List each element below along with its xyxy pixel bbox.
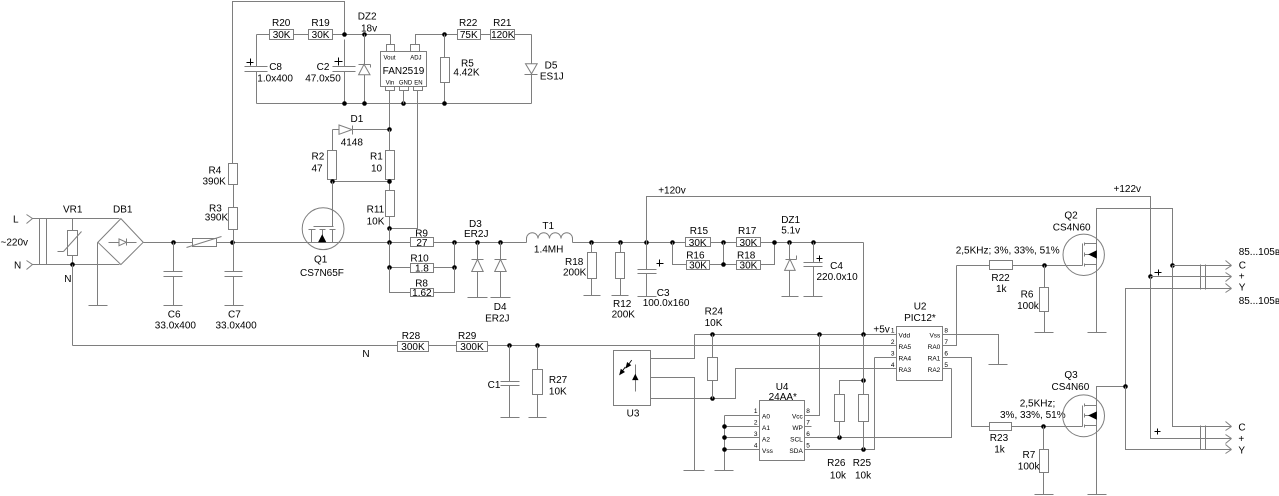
port L input <box>27 215 33 224</box>
svg-text:C2: C2 <box>317 62 330 73</box>
ground R18 bar <box>584 295 601 297</box>
svg-text:+5v: +5v <box>873 325 889 336</box>
svg-text:4: 4 <box>891 362 895 369</box>
wire U2 RA0 riser to R22 <box>943 266 957 346</box>
node junction SCL / R26 <box>837 435 842 440</box>
diode D3 <box>472 243 484 298</box>
transistor Q1 taps <box>312 230 333 243</box>
svg-text:Vss: Vss <box>929 332 941 339</box>
node junction + output upper <box>1148 274 1153 279</box>
wire U4 left pins common <box>725 416 760 471</box>
fusible resistor on main line <box>187 237 222 248</box>
resistor R25 value <box>855 471 872 482</box>
zener diode DZ1 label <box>781 215 800 226</box>
transistor Q3 channel ticks <box>1084 404 1086 428</box>
resistor R12 label <box>613 299 632 310</box>
svg-text:Q1: Q1 <box>314 255 328 266</box>
resistor R12 <box>616 243 625 296</box>
diode D3 label <box>469 219 482 230</box>
inductor T1 label <box>542 221 554 232</box>
svg-text:C1: C1 <box>488 380 501 391</box>
node label C lower <box>1238 423 1245 434</box>
resistor R5 value <box>453 68 479 79</box>
resistor R4 label <box>209 166 222 177</box>
resistor R7 value <box>1018 462 1041 473</box>
svg-text:30K: 30K <box>740 260 758 271</box>
svg-text:D5: D5 <box>545 61 558 72</box>
ground U3 bar <box>684 470 705 472</box>
svg-text:R26: R26 <box>827 458 846 469</box>
svg-text:RA2: RA2 <box>928 367 941 374</box>
wire +5v rail <box>695 334 897 336</box>
wire + line upper <box>1151 276 1232 278</box>
svg-text:33.0x400: 33.0x400 <box>155 321 197 332</box>
capacitor C2 <box>333 40 356 104</box>
wire FAN2519 Vout riser <box>390 35 392 45</box>
resistor R4 <box>229 164 238 208</box>
node label N below junction <box>64 274 71 285</box>
ic U2 pin labels right <box>928 332 941 374</box>
ground DZ1 bar <box>782 296 799 298</box>
svg-text:ES1J: ES1J <box>540 72 564 83</box>
resistor R15 <box>686 238 711 249</box>
resistor R15 label <box>690 226 709 237</box>
svg-text:10K: 10K <box>367 217 385 228</box>
ic U2 box <box>897 327 943 381</box>
wire FAN2519 EN down to R11 node <box>390 91 418 229</box>
resistor R19 <box>309 30 333 42</box>
wire N to DB1 bottom <box>33 264 120 266</box>
wire U2 RA2 to SCL <box>943 368 952 370</box>
resistor R27 <box>533 346 543 418</box>
transistor Q3 taps <box>1085 406 1097 426</box>
svg-text:SDA: SDA <box>789 448 803 455</box>
svg-text:200K: 200K <box>612 310 636 321</box>
node junction Q3 gate / R7 <box>1041 424 1046 429</box>
port Y lower arrow <box>1226 445 1232 454</box>
svg-text:DZ2: DZ2 <box>358 12 377 23</box>
ic U4 box <box>760 401 805 461</box>
node junction +5v feed / R25 column <box>861 332 866 337</box>
ic U2 pin labels left <box>899 332 912 374</box>
resistor R18 <box>588 243 597 296</box>
node junction main/R9 left <box>387 240 392 245</box>
node junction SDA / R25 <box>861 447 866 452</box>
svg-text:R4: R4 <box>209 166 222 177</box>
node junction FAN2519 GND <box>401 101 406 106</box>
svg-text:4.42K: 4.42K <box>453 68 479 79</box>
transistor Q2 part number <box>1053 223 1091 234</box>
wire Y line lower <box>1126 387 1232 450</box>
resistor R6 label <box>1021 290 1034 301</box>
svg-text:2,5KHz; 3%, 33%, 51%: 2,5KHz; 3%, 33%, 51% <box>956 246 1060 257</box>
ground U2 Vss bar <box>989 364 1008 366</box>
node junction R26/R25 top <box>861 378 866 383</box>
resistor R9 label <box>415 229 428 240</box>
capacitor C6 value <box>155 321 197 332</box>
transistor Q3 part number <box>1052 382 1090 393</box>
wire main to +5v feed <box>863 243 865 335</box>
wire U2 Vss to bar <box>943 335 999 365</box>
capacitor C4 <box>804 243 823 297</box>
resistor R10 label <box>410 254 429 265</box>
svg-text:R2: R2 <box>312 152 325 163</box>
resistor R18 value <box>563 268 587 279</box>
ic U2 label <box>914 302 927 313</box>
svg-text:Y: Y <box>1238 446 1245 457</box>
resistor R9 <box>411 238 434 249</box>
svg-text:R27: R27 <box>549 375 568 386</box>
wire Q1 gate riser <box>332 182 334 227</box>
svg-text:U3: U3 <box>627 409 640 420</box>
svg-text:3%, 33%, 51%: 3%, 33%, 51% <box>1000 410 1066 421</box>
bridge rectifier DB1 <box>98 219 143 265</box>
transistor Q1 gate bar <box>314 226 334 228</box>
capacitor C8 label <box>269 62 282 73</box>
node junction U4 pin4 <box>722 447 727 452</box>
svg-text:L: L <box>13 215 19 226</box>
capacitor C2 label <box>317 62 330 73</box>
svg-text:C: C <box>1239 261 1246 272</box>
svg-text:10K: 10K <box>549 387 567 398</box>
svg-text:1.4MH: 1.4MH <box>534 245 563 256</box>
svg-text:+122v: +122v <box>1114 184 1142 195</box>
diode D5 value <box>540 72 564 83</box>
resistor R26 label <box>827 458 846 469</box>
node label Y lower <box>1238 446 1245 457</box>
node junction Q3 drain / Y <box>1123 384 1128 389</box>
node label +122v <box>1114 184 1142 195</box>
svg-text:7: 7 <box>944 339 948 346</box>
svg-text:R22: R22 <box>459 18 478 29</box>
resistor R28 <box>398 342 429 354</box>
node junction C1 <box>507 343 512 348</box>
connector bars upper <box>1201 265 1206 290</box>
ic U4 pin numbers right <box>806 408 810 450</box>
wire U3 pin B to ground <box>651 378 695 471</box>
svg-text:RA4: RA4 <box>899 355 912 362</box>
svg-text:C6: C6 <box>168 310 181 321</box>
svg-text:10: 10 <box>371 164 383 175</box>
wire main line T1 to C4 corner <box>573 242 864 244</box>
svg-text:T1: T1 <box>542 221 554 232</box>
node junction U4 pin3 <box>722 435 727 440</box>
node label 85...105v upper <box>1239 247 1279 258</box>
svg-text:R11: R11 <box>367 205 385 216</box>
capacitor C7 value <box>216 321 258 332</box>
svg-text:85...105в: 85...105в <box>1239 296 1279 307</box>
wire U3 pin A to +5v rail <box>651 335 695 359</box>
capacitor C3 <box>638 243 657 297</box>
node label +120v <box>658 186 686 197</box>
port + upper arrow <box>1226 273 1232 282</box>
svg-text:R12: R12 <box>613 299 632 310</box>
FAN2519 pin Vin box <box>386 87 395 91</box>
svg-text:A1: A1 <box>762 425 770 432</box>
optocoupler U3 box <box>614 351 651 406</box>
bridge rectifier DB1 label <box>113 205 133 216</box>
svg-text:R25: R25 <box>853 458 872 469</box>
node junction R12 <box>618 240 623 245</box>
svg-text:300K: 300K <box>401 342 425 353</box>
node junction R19/C2/top-loop <box>342 32 347 37</box>
svg-text:47: 47 <box>312 164 324 175</box>
transistor Q1 body arrow <box>319 235 326 241</box>
resistor R1 value <box>371 164 383 175</box>
wire U2 RA1 to R23 <box>943 358 990 427</box>
node label 3%, 33%, 51% for Q3 <box>1000 410 1066 421</box>
node junction Q1 gate / R2 <box>330 179 335 184</box>
capacitor C3 label <box>657 288 670 299</box>
resistor R17 <box>737 238 761 249</box>
node junction mid lower <box>721 262 726 267</box>
node + polarity mark lower <box>1155 429 1161 435</box>
resistor R23 value <box>994 445 1006 456</box>
svg-text:4148: 4148 <box>341 138 364 149</box>
transistor Q2 body arrow <box>1089 251 1096 258</box>
svg-text:C4: C4 <box>830 261 843 272</box>
op-amp U-FAN2519 body <box>381 52 427 87</box>
capacitor C4 value <box>817 272 859 283</box>
svg-text:CS4N60: CS4N60 <box>1053 223 1091 234</box>
svg-text:30K: 30K <box>689 260 707 271</box>
port C upper arrow <box>1226 261 1232 270</box>
svg-text:C: C <box>1238 423 1245 434</box>
wire FAN2519 Vin down to D1 node <box>389 91 391 130</box>
svg-text:SCL: SCL <box>790 436 803 443</box>
resistor R3 <box>229 208 238 243</box>
node junction R18 <box>589 240 594 245</box>
transistor Q2 label <box>1064 211 1078 222</box>
transistor Q2 taps <box>1085 244 1097 265</box>
node junction R27 <box>535 343 540 348</box>
svg-text:1.8: 1.8 <box>415 264 429 275</box>
wire mid link <box>710 243 737 265</box>
resistor R22 top label <box>459 18 478 29</box>
resistor R23 label <box>990 433 1009 444</box>
capacitor C2 plus sign <box>335 58 343 66</box>
svg-text:U2: U2 <box>914 302 927 313</box>
node junction U4 pin2 <box>722 424 727 429</box>
svg-text:27: 27 <box>416 238 428 249</box>
ground R27 bar <box>529 417 547 419</box>
node junction C3 / +120v <box>644 240 649 245</box>
svg-text:220.0x10: 220.0x10 <box>817 272 859 283</box>
port C lower arrow <box>1226 422 1232 431</box>
svg-text:390K: 390K <box>205 213 229 224</box>
svg-text:RA3: RA3 <box>899 367 912 374</box>
node junction R24 bottom <box>710 396 715 401</box>
transistor Q2 channel ticks <box>1084 243 1086 267</box>
FAN2519 pin GND box <box>400 87 409 91</box>
svg-text:R23: R23 <box>990 433 1009 444</box>
wire C line upper <box>1173 265 1232 267</box>
resistor R22 gate <box>990 261 1013 270</box>
ic U4 pin labels right <box>789 413 803 455</box>
svg-text:DB1: DB1 <box>113 205 133 216</box>
svg-text:1.0x400: 1.0x400 <box>257 74 293 85</box>
svg-text:10K: 10K <box>705 318 723 329</box>
diode D1 <box>333 125 390 135</box>
resistor R23 <box>990 423 1012 431</box>
svg-text:18v: 18v <box>361 24 377 35</box>
svg-text:DZ1: DZ1 <box>781 215 800 226</box>
wire R10 row <box>390 243 455 268</box>
wire main line DB1 to T1 <box>144 242 527 244</box>
resistor R7 label <box>1023 450 1036 461</box>
wire SCL line <box>805 369 952 438</box>
svg-text:Q2: Q2 <box>1064 211 1078 222</box>
resistor R18 label <box>565 257 584 268</box>
capacitor C6 label <box>168 310 181 321</box>
capacitor C3 value <box>643 298 690 309</box>
FAN2519 pin EN box <box>414 87 423 91</box>
ground R12 bar <box>612 295 629 297</box>
transistor Q1 circle <box>302 208 344 250</box>
diode D4 <box>495 243 507 298</box>
resistor R1 label <box>370 152 383 163</box>
svg-text:300K: 300K <box>460 342 484 353</box>
wire SDA line <box>805 358 875 450</box>
resistor R12 value <box>612 310 636 321</box>
node junction R16 branch <box>670 240 675 245</box>
resistor R2 value <box>312 164 324 175</box>
wire DB1 left vertex to ground <box>97 243 99 306</box>
node label + lower <box>1238 434 1244 445</box>
svg-text:1: 1 <box>891 327 895 334</box>
transistor Q1 label <box>314 255 328 266</box>
resistor R11 value <box>367 217 385 228</box>
node label N input <box>14 261 21 272</box>
svg-text:WP: WP <box>792 425 802 432</box>
svg-text:N: N <box>362 349 369 360</box>
capacitor C4 plus sign <box>817 256 823 262</box>
node junction U4 Vcc riser <box>817 332 822 337</box>
capacitor C4 label <box>830 261 843 272</box>
svg-text:30K: 30K <box>689 238 707 249</box>
node label 2,5KHz; 3%, 33%, 51% <box>956 246 1060 257</box>
resistor R29 <box>457 342 488 354</box>
svg-text:R21: R21 <box>493 18 512 29</box>
port Y upper arrow <box>1226 284 1232 293</box>
svg-text:RA0: RA0 <box>928 344 941 351</box>
wire C line lower <box>1173 266 1232 427</box>
svg-text:FAN2519: FAN2519 <box>383 66 425 77</box>
svg-text:R22: R22 <box>991 273 1010 284</box>
resistor R22 gate value <box>996 284 1008 295</box>
resistor R27 label <box>549 375 568 386</box>
node junction C4 <box>811 240 816 245</box>
resistor R20 <box>270 30 294 42</box>
resistor R24 label <box>705 307 724 318</box>
svg-text:R24: R24 <box>705 307 724 318</box>
diode D4 value <box>485 314 509 325</box>
svg-text:200K: 200K <box>563 268 587 279</box>
svg-text:6: 6 <box>944 350 948 357</box>
zener diode DZ1 <box>785 243 797 297</box>
svg-text:120K: 120K <box>491 30 515 41</box>
varistor VR1 <box>58 219 82 265</box>
svg-text:+: + <box>1238 434 1244 445</box>
node junction DZ2 top <box>362 32 367 37</box>
resistor R7 <box>1040 427 1049 495</box>
capacitor C1 label <box>488 380 501 391</box>
resistor R16 <box>687 260 710 271</box>
node + polarity mark upper <box>1155 270 1162 276</box>
FAN2519 pin label GND <box>399 80 413 86</box>
node junction R15/R17 mid <box>721 240 726 245</box>
resistor R6 value <box>1017 301 1040 312</box>
node junction R24 top <box>710 332 715 337</box>
zener diode DZ2 <box>359 35 371 104</box>
resistor R5 label <box>461 59 474 70</box>
optocoupler U3 arrow 1 <box>626 360 632 368</box>
ic U4 pin labels left <box>762 413 774 455</box>
wire + line lower <box>1151 277 1232 439</box>
transistor Q3 circle <box>1063 395 1105 437</box>
resistor R17 label <box>738 226 757 237</box>
node label + upper <box>1239 272 1245 283</box>
svg-text:D1: D1 <box>351 114 364 125</box>
node junction R5 bottom <box>442 101 447 106</box>
wire top row y=34 from C8 to FAN2519 Vout riser <box>257 34 391 36</box>
svg-text:A2: A2 <box>762 436 770 443</box>
ground Q2 source bar <box>1088 332 1107 334</box>
node junction R11 bottom / EN <box>387 226 392 231</box>
node junction R9 right <box>452 240 457 245</box>
svg-text:33.0x400: 33.0x400 <box>216 321 258 332</box>
capacitor C2 value <box>305 74 341 85</box>
resistor R16 label <box>686 251 705 262</box>
svg-text:7: 7 <box>806 420 810 427</box>
transistor Q1 channel ticks <box>309 229 336 231</box>
svg-text:30K: 30K <box>273 30 291 41</box>
svg-text:C7: C7 <box>228 310 241 321</box>
svg-text:Vin: Vin <box>386 80 395 86</box>
svg-text:Q3: Q3 <box>1064 370 1078 381</box>
svg-text:100k: 100k <box>1018 462 1041 473</box>
resistor R26 value <box>830 471 847 482</box>
svg-text:ADJ: ADJ <box>410 56 421 62</box>
capacitor C8 plus sign <box>247 59 254 66</box>
node junction R3 / C7 <box>230 240 235 245</box>
resistor R24 <box>708 335 718 399</box>
svg-text:R1: R1 <box>370 152 383 163</box>
capacitor C1 <box>501 346 520 418</box>
wire R18b right up <box>761 243 775 265</box>
wire U3 pin C to U2 RA3 <box>651 369 897 399</box>
node junction DZ1 <box>787 240 792 245</box>
resistor R1 <box>386 130 395 191</box>
wire U2 RA4 to SDA <box>875 357 897 359</box>
capacitor C8 value <box>257 74 293 85</box>
svg-text:R15: R15 <box>690 226 709 237</box>
resistor R8 label <box>415 279 428 290</box>
svg-text:3: 3 <box>891 350 895 357</box>
inductor T1 <box>527 233 573 243</box>
node junction D1 cathode / Vin / R1 <box>387 127 392 132</box>
wire R11 node to main line <box>389 229 391 243</box>
node label C upper <box>1239 261 1246 272</box>
ground D4 bar <box>491 297 511 299</box>
port + lower arrow <box>1226 435 1232 444</box>
connector mains double bars <box>40 219 47 265</box>
ic U2 pin numbers left <box>891 327 895 369</box>
svg-text:C8: C8 <box>269 62 282 73</box>
optocoupler U3 arrow 2 <box>620 367 626 374</box>
resistor R28 label <box>402 331 421 342</box>
optocoupler U3 label <box>627 409 640 420</box>
